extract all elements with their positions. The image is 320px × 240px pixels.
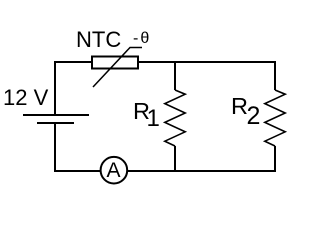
- label R1 subscript 1: [147, 105, 160, 133]
- wire: bottom rail right segment: [127, 170, 276, 172]
- label A (ammeter letter): [107, 159, 121, 183]
- wire: left vertical top (node to battery +): [54, 61, 56, 115]
- resistor R2 zigzag: [265, 90, 285, 146]
- ammeter A circle: [101, 157, 128, 184]
- resistor R1 zigzag: [165, 90, 185, 146]
- label -θ (negative temperature coefficient): [133, 30, 151, 48]
- battery B1 short plate (-): [37, 122, 74, 124]
- wire: middle vertical top lead of R1: [174, 62, 176, 90]
- wire: bottom rail left segment: [54, 170, 101, 172]
- label R1 (resistor R1): [133, 98, 150, 125]
- label R2 subscript 2: [247, 102, 261, 131]
- battery B1 long plate (+): [23, 114, 89, 116]
- thermistor NTC diagonal stroke: [93, 48, 142, 88]
- thermistor NTC body rectangle: [92, 57, 138, 69]
- wire: right vertical bottom lead of R2: [274, 146, 276, 172]
- wire: middle vertical bottom lead of R1: [174, 146, 176, 172]
- label 12 V (battery value): [3, 85, 48, 111]
- wire: right vertical top lead of R2: [274, 62, 276, 90]
- label R2 (resistor R2): [231, 93, 248, 120]
- wire: top rail left segment: [54, 61, 92, 63]
- wire: top rail right segment: [138, 61, 276, 63]
- wire: left vertical bottom (battery - to bottom rail): [54, 123, 56, 172]
- label NTC (thermistor name): [76, 27, 121, 53]
